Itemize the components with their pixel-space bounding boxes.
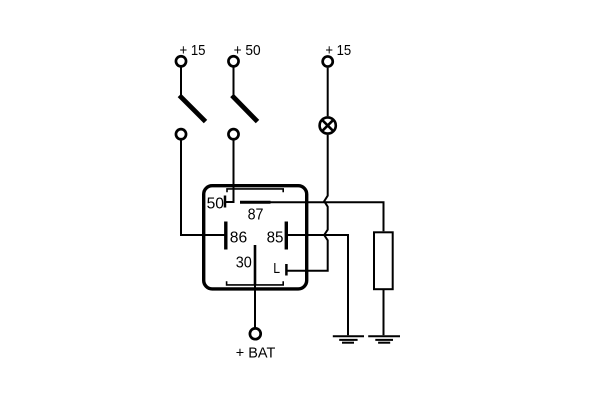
switch S1 lower terminal circle (176, 129, 186, 139)
switch S1 blade (179, 95, 205, 121)
pin L label (273, 260, 280, 277)
wire S2 top (233, 68, 235, 97)
wire pin 87 to resistor (271, 202, 384, 231)
lamp E1 (320, 117, 336, 133)
battery terminal circle (250, 328, 261, 339)
svg-text:85: 85 (267, 229, 284, 246)
pin 30 bar (254, 245, 257, 285)
terminal +15 label (switch S1) (180, 42, 206, 59)
pin 85 label (267, 229, 284, 246)
svg-text:50: 50 (207, 195, 224, 212)
pin 85 bar (285, 222, 288, 250)
pin 50 label (207, 195, 224, 212)
pin L bar (285, 264, 288, 276)
terminal +15 circle (lamp branch) (323, 56, 333, 66)
contact rail top (227, 189, 283, 192)
svg-text:30: 30 (236, 255, 252, 272)
switch S2 lower terminal circle (228, 129, 238, 139)
resistor R1 (374, 232, 393, 289)
wire terminal to lamp (327, 68, 329, 117)
terminal +50 circle (switch S2) (228, 56, 238, 66)
wire lamp to pin L with crossover jogs (286, 135, 327, 271)
svg-text:87: 87 (248, 206, 264, 223)
terminal +15 label (lamp branch) (325, 42, 351, 59)
wire pin 30 to battery terminal (254, 285, 256, 327)
pin 87 label (248, 206, 264, 223)
wire S1 top (180, 68, 182, 97)
pin 86 bar (224, 222, 227, 250)
relay K1 outline (204, 186, 307, 289)
switch S2 blade (232, 95, 258, 121)
svg-text:+ BAT: + BAT (236, 345, 275, 362)
wire resistor to ground (383, 289, 385, 335)
ground G1 (333, 336, 364, 343)
pin 86 label (230, 229, 247, 246)
terminal +15 circle (switch S1) (176, 56, 186, 66)
pin 50 bar (224, 196, 227, 208)
svg-text:L: L (273, 260, 280, 277)
contact rail bottom (227, 281, 284, 285)
wire S1 to pin 86 (181, 140, 225, 235)
wire pin 85 to ground (286, 235, 348, 335)
pin 30 label (236, 255, 252, 272)
terminal +50 label (switch S2) (234, 42, 261, 59)
battery label +BAT (236, 345, 275, 362)
wire S2 to pin 50 (225, 140, 234, 202)
ground G2 (368, 336, 400, 343)
svg-text:86: 86 (230, 229, 247, 246)
pin 87 bar (240, 201, 271, 204)
